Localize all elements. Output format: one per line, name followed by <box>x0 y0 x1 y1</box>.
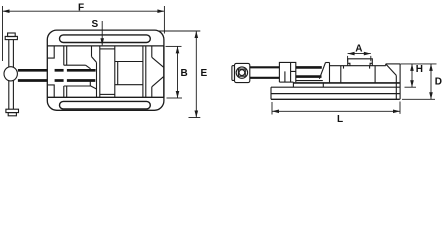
movable jaw inner step <box>285 63 296 83</box>
svg-text:L: L <box>337 114 343 124</box>
movable jaw bottom edge <box>279 81 293 83</box>
fixed jaw plate tick left <box>343 66 345 69</box>
rear bracket / base right edge <box>399 64 401 99</box>
ways dark edge <box>293 82 399 84</box>
fixed jaw plate back <box>117 62 119 85</box>
movable jaw chamfer lower <box>90 86 96 89</box>
base top edge <box>271 86 400 88</box>
body bottom edge <box>47 96 164 98</box>
vise body outer flange (rounded rectangle, plan view) <box>47 30 164 110</box>
svg-text:A: A <box>355 43 362 54</box>
dimension H bottom extension <box>405 86 417 88</box>
body inner line right <box>145 46 147 97</box>
left wall nut pocket lower <box>48 85 55 97</box>
svg-text:E: E <box>201 68 208 79</box>
rear bracket top edge <box>386 63 400 65</box>
fixed jaw shelf top <box>115 61 143 63</box>
body right edge <box>163 46 165 97</box>
ways edge top in jaw gap <box>100 48 115 50</box>
movable jaw chamfer upper <box>92 57 97 63</box>
handle knob top flange <box>5 36 17 39</box>
fixed jaw plate tick right <box>369 66 371 69</box>
handle bar <box>8 40 10 110</box>
fixed jaw shelf bottom <box>115 84 143 86</box>
movable jaw back edge upper <box>91 46 93 57</box>
dimension D bottom extension <box>402 98 435 100</box>
nut bracket front diagonal <box>319 63 325 79</box>
base bottom edge <box>271 98 400 100</box>
top mounting slot <box>60 35 151 43</box>
screw end bearing block <box>235 63 250 82</box>
screw end inner circle <box>239 70 245 76</box>
end bracket edge lower <box>151 87 153 98</box>
handle ball joint <box>4 67 17 81</box>
dimension F extension line left <box>2 6 4 61</box>
slider block top diagonal <box>86 65 91 69</box>
fixed jaw corner notch left <box>348 63 350 65</box>
base left edge <box>270 87 272 99</box>
movable jaw (side view) <box>279 62 295 82</box>
base slot tick right <box>322 83 324 87</box>
end bracket chamfer lower <box>152 77 164 87</box>
movable jaw back edge lower <box>89 81 91 86</box>
ways edge bottom in jaw gap <box>100 93 115 95</box>
dimension B extension top <box>166 45 182 47</box>
slider block bottom edge <box>64 85 91 87</box>
movable jaw plate back <box>96 62 98 97</box>
svg-text:F: F <box>78 3 84 14</box>
handle knob bottom flange <box>6 109 19 112</box>
slide bar upper (side view) <box>296 67 322 76</box>
end bracket edge upper <box>151 46 153 57</box>
fixed jaw tower right edge <box>374 66 376 83</box>
dimension L extension right <box>399 102 401 114</box>
movable jaw face <box>99 46 101 97</box>
dimension A extension right <box>370 56 372 61</box>
svg-text:H: H <box>416 64 423 75</box>
rear bracket left edge <box>385 64 387 66</box>
dimension E extension bottom <box>189 117 201 119</box>
fixed jaw tower left edge <box>340 66 342 83</box>
dimension E extension top <box>158 30 201 32</box>
bottom mounting slot <box>60 101 151 109</box>
slider block top edge <box>64 64 86 66</box>
dimension F line <box>3 9 165 13</box>
base flange line <box>271 93 400 95</box>
handle knob top cap <box>8 33 16 37</box>
slider guide vertical pair lower <box>64 86 67 97</box>
nut bracket rear edge <box>329 63 331 83</box>
screw end nut square <box>238 69 245 76</box>
slider guide vertical pair upper <box>64 46 67 65</box>
fixed jaw face <box>114 46 116 97</box>
base slot tick left <box>292 82 294 87</box>
rear bracket inner edge <box>395 75 397 99</box>
rear bracket chamfer rib <box>386 64 396 75</box>
body top edge <box>47 45 164 47</box>
fixed jaw block right edge <box>142 46 144 97</box>
dimension B line <box>176 46 180 98</box>
dimension L extension left <box>271 102 273 115</box>
screw end washer <box>232 66 235 81</box>
fixed jaw shoulder line <box>330 65 386 67</box>
svg-text:D: D <box>435 76 442 87</box>
dimension D line <box>429 64 433 99</box>
vise screw (plan view, two thick lines) <box>18 70 96 80</box>
dimension L line <box>272 110 400 114</box>
dimension A line <box>348 52 371 56</box>
fixed jaw top block <box>348 59 373 66</box>
dimension B extension bottom <box>167 97 183 99</box>
end bracket chamfer upper <box>152 57 164 67</box>
svg-text:S: S <box>92 19 99 30</box>
screw end outer circle <box>236 67 247 78</box>
left wall nut pocket upper <box>48 46 55 58</box>
slide thin lower line <box>296 80 323 82</box>
dimension H/D top extension <box>400 63 436 65</box>
handle knob bottom cap <box>8 113 16 116</box>
dimension H line <box>410 64 414 87</box>
screw shaft (side view, two thick lines) <box>250 67 280 78</box>
svg-text:B: B <box>181 68 188 79</box>
nut bracket top <box>326 62 330 64</box>
dimension A extension left <box>347 56 349 62</box>
dimension F extension line right <box>163 6 165 34</box>
fixed jaw corner notch right <box>370 63 372 65</box>
dimension S leader line with down arrow <box>100 21 104 45</box>
dimension E line <box>195 31 199 118</box>
